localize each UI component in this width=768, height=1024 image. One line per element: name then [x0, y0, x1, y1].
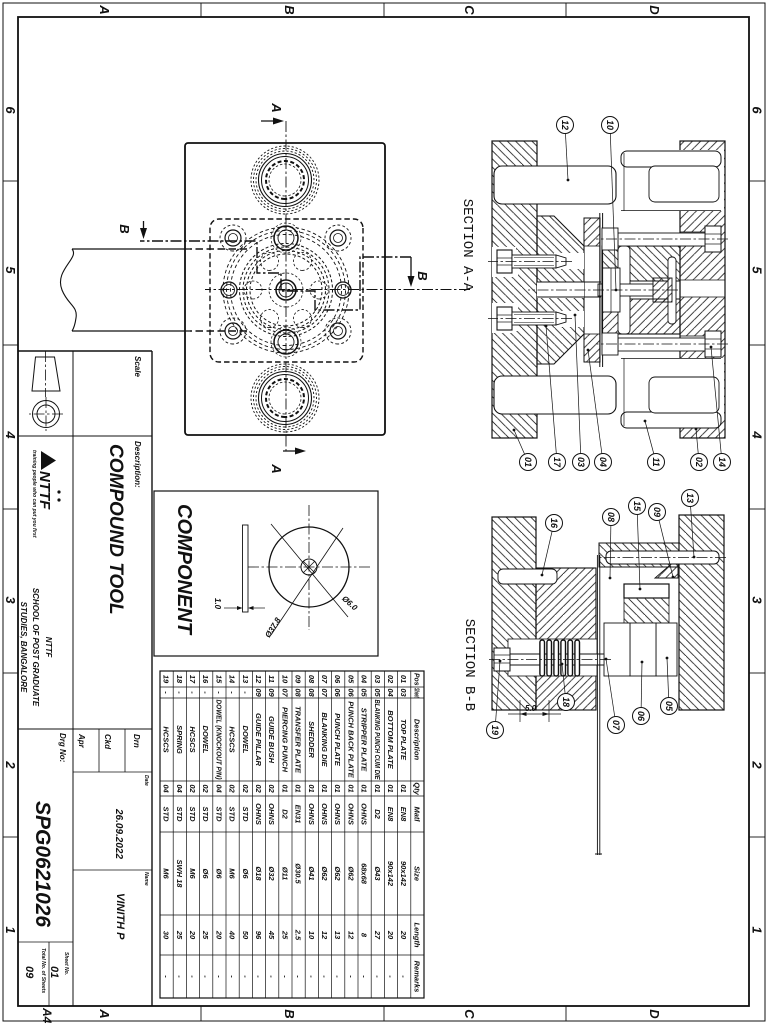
- svg-text:3: 3: [3, 596, 18, 604]
- svg-text:EN31: EN31: [294, 805, 303, 824]
- svg-text:Ø6: Ø6: [241, 868, 250, 879]
- shedder slot: [618, 246, 630, 334]
- svg-text:VINITH P: VINITH P: [114, 893, 126, 940]
- svg-text:D2: D2: [280, 809, 289, 819]
- svg-text:-: -: [254, 975, 263, 978]
- svg-text:8: 8: [360, 933, 369, 938]
- svg-text:-: -: [162, 975, 171, 978]
- svg-text:Ø62: Ø62: [346, 866, 355, 881]
- svg-text:40: 40: [228, 930, 237, 940]
- svg-text:Ø32: Ø32: [267, 866, 276, 881]
- svg-text:Apr: Apr: [77, 733, 86, 749]
- punch plate 06: [630, 623, 656, 676]
- stripper plate dashed outline: [210, 219, 363, 362]
- svg-text:04: 04: [360, 675, 369, 684]
- svg-text:4: 4: [750, 430, 765, 439]
- guide pillar left (12): [494, 166, 616, 204]
- svg-text:GUIDE PILLAR: GUIDE PILLAR: [254, 713, 263, 767]
- svg-text:HCSCS: HCSCS: [188, 726, 197, 752]
- svg-text:01: 01: [399, 675, 408, 683]
- svg-text:10: 10: [307, 931, 316, 940]
- svg-text:02: 02: [254, 784, 263, 793]
- svg-text:11: 11: [651, 457, 661, 466]
- balloon 07: [605, 658, 625, 734]
- svg-text:16: 16: [549, 518, 559, 529]
- guide bush left (11): [620, 150, 724, 211]
- svg-text:DOWEL (KNOCKOUT PIN): DOWEL (KNOCKOUT PIN): [214, 700, 223, 780]
- svg-text:16: 16: [201, 675, 210, 684]
- svg-text:07: 07: [611, 720, 621, 731]
- svg-text:SPG0621026: SPG0621026: [31, 801, 54, 927]
- svg-text:07: 07: [320, 675, 329, 684]
- svg-text:A: A: [97, 4, 112, 14]
- parts list table: [160, 671, 424, 998]
- svg-text:A: A: [269, 463, 284, 473]
- svg-text:-: -: [307, 975, 316, 978]
- bottom plate (B-B top slab): [679, 515, 724, 710]
- svg-text:-: -: [175, 975, 184, 978]
- svg-text:09: 09: [23, 966, 35, 979]
- svg-text:D: D: [647, 5, 662, 15]
- svg-text:50: 50: [241, 931, 250, 940]
- svg-text:-: -: [386, 975, 395, 978]
- svg-text:01: 01: [373, 784, 382, 792]
- small bush bottom (plan): [271, 327, 301, 357]
- balloon 01: [513, 429, 537, 471]
- svg-text:01: 01: [307, 784, 316, 792]
- svg-text:M6: M6: [228, 868, 237, 879]
- balloon 06: [633, 661, 650, 725]
- svg-text:B: B: [117, 224, 132, 233]
- svg-text:12: 12: [254, 675, 263, 684]
- svg-text:5.0: 5.0: [525, 704, 537, 713]
- guide bush left (plan): [251, 146, 319, 214]
- balloon 16: [541, 515, 563, 577]
- svg-text:Qty: Qty: [412, 782, 421, 795]
- bottom plate 02 (top slab): [680, 141, 725, 438]
- svg-text:OHNS: OHNS: [320, 803, 329, 825]
- svg-text:01: 01: [280, 784, 289, 792]
- svg-text:18: 18: [561, 697, 571, 707]
- svg-text:08: 08: [294, 688, 303, 697]
- svg-text:Ø6.0: Ø6.0: [340, 594, 359, 613]
- svg-text:01: 01: [360, 784, 369, 792]
- corner screw circles: [220, 225, 351, 344]
- svg-text:SECTION B-B: SECTION B-B: [461, 619, 477, 711]
- svg-text:10: 10: [280, 675, 289, 684]
- balloon 03: [573, 314, 590, 471]
- svg-text:-: -: [162, 691, 171, 694]
- svg-text:5: 5: [750, 266, 765, 274]
- svg-text:OHNS: OHNS: [307, 803, 316, 825]
- svg-text:B: B: [282, 1009, 297, 1018]
- svg-text:-: -: [320, 975, 329, 978]
- svg-text:A: A: [269, 102, 284, 112]
- svg-text:PIERCING PUNCH: PIERCING PUNCH: [280, 707, 289, 773]
- svg-text:1: 1: [750, 926, 765, 933]
- plan vertical centerline: [205, 289, 470, 291]
- svg-text:01: 01: [333, 784, 342, 792]
- component detail box: [154, 491, 378, 656]
- svg-text:01: 01: [523, 457, 533, 467]
- svg-text:Name: Name: [143, 872, 149, 886]
- svg-text:09: 09: [254, 688, 263, 697]
- svg-text:-: -: [373, 975, 382, 978]
- svg-text:01: 01: [294, 784, 303, 792]
- svg-text:15: 15: [632, 501, 642, 512]
- svg-text:19: 19: [162, 675, 171, 684]
- svg-text:Ckd: Ckd: [103, 734, 112, 750]
- svg-text:12: 12: [320, 931, 329, 940]
- svg-text:30: 30: [162, 931, 171, 940]
- svg-text:Ø30.5: Ø30.5: [294, 863, 303, 884]
- svg-text:Ø37.8: Ø37.8: [263, 616, 282, 640]
- svg-text:08: 08: [606, 512, 616, 522]
- svg-text:C: C: [462, 1009, 477, 1019]
- svg-text:SPRING: SPRING: [175, 725, 184, 754]
- svg-text:BLANKING DIE: BLANKING DIE: [320, 712, 329, 767]
- svg-text:OHNS: OHNS: [346, 803, 355, 825]
- balloon 18: [558, 663, 575, 711]
- svg-text:Ø43: Ø43: [373, 866, 382, 881]
- upper middle blocks: [599, 543, 679, 578]
- svg-text:STD: STD: [241, 807, 250, 823]
- svg-text:20: 20: [188, 930, 197, 940]
- strip edges: [60, 249, 247, 331]
- piercing punch 10: [598, 278, 672, 302]
- screw 17 right: [488, 303, 572, 333]
- svg-text:-: -: [214, 975, 223, 978]
- svg-text:STD: STD: [214, 807, 223, 823]
- svg-text:07: 07: [320, 688, 329, 697]
- svg-text:Ø62: Ø62: [333, 866, 342, 881]
- svg-text:-: -: [188, 691, 197, 694]
- svg-text:3: 3: [750, 596, 765, 604]
- svg-text:02: 02: [228, 784, 237, 793]
- svg-text:Date: Date: [143, 775, 149, 786]
- die block (B-B lower): [536, 568, 596, 710]
- svg-text:M6: M6: [188, 868, 197, 879]
- strip through B-B: [595, 555, 602, 855]
- component circle: [247, 505, 370, 630]
- balloon 12: [557, 117, 574, 182]
- guide bush right (11): [620, 358, 724, 428]
- stripper plate 04: [584, 218, 600, 362]
- balloon 11: [644, 420, 665, 471]
- svg-text:EN8: EN8: [386, 807, 395, 822]
- svg-text:68x68: 68x68: [360, 863, 369, 885]
- svg-text:03: 03: [576, 457, 586, 467]
- svg-text:Ø18: Ø18: [254, 866, 263, 881]
- punch back plate 05: [656, 623, 677, 676]
- svg-text:STD: STD: [228, 807, 237, 823]
- SECTION A-A: [488, 141, 728, 438]
- balloon 19: [487, 660, 504, 739]
- strip in section A-A: [602, 213, 604, 367]
- svg-text:Scale: Scale: [133, 356, 142, 377]
- balloon 08: [603, 509, 620, 580]
- svg-text:06: 06: [636, 711, 646, 722]
- drg no SPG0621026: [31, 733, 67, 927]
- svg-text:15: 15: [214, 675, 223, 684]
- svg-text:26.09.2022: 26.09.2022: [113, 808, 124, 859]
- svg-text:20: 20: [399, 930, 408, 940]
- svg-text:01: 01: [386, 784, 395, 792]
- svg-text:11: 11: [267, 675, 276, 683]
- sheet no cell: [23, 948, 69, 1024]
- svg-text:-: -: [360, 975, 369, 978]
- svg-text:BLANKING PUNCH CUM DIE: BLANKING PUNCH CUM DIE: [373, 700, 382, 781]
- shedder 08 / transfer plate 09: [602, 268, 620, 312]
- svg-text:SECTION A-A: SECTION A-A: [459, 199, 475, 292]
- svg-text:25: 25: [175, 930, 184, 940]
- svg-text:19: 19: [490, 725, 500, 735]
- svg-text:18: 18: [175, 675, 184, 684]
- svg-text:D2: D2: [373, 809, 382, 819]
- svg-text:Ø41: Ø41: [307, 866, 316, 880]
- svg-text:6: 6: [3, 106, 18, 114]
- projection symbol: [29, 351, 63, 431]
- svg-text:STRIPPER PLATE: STRIPPER PLATE: [360, 708, 369, 773]
- svg-text:DOWEL: DOWEL: [201, 726, 210, 754]
- svg-text:-: -: [267, 975, 276, 978]
- screw 14 left: [596, 226, 728, 252]
- punch holder block: [537, 216, 601, 364]
- svg-text:Ø6: Ø6: [201, 868, 210, 879]
- balloon 15: [629, 498, 646, 591]
- svg-text:13: 13: [685, 493, 695, 503]
- svg-text:14: 14: [717, 457, 727, 467]
- svg-text:08: 08: [307, 688, 316, 697]
- spring 18 with screw 19: [488, 639, 611, 676]
- dowel 13: [600, 551, 726, 564]
- svg-text:02: 02: [201, 784, 210, 793]
- balloon 10: [602, 117, 619, 292]
- dia 6.0 leader: [271, 524, 360, 617]
- svg-text:06: 06: [333, 675, 342, 684]
- svg-text:06: 06: [346, 688, 355, 697]
- section B-B stepped cutting line: [117, 221, 430, 310]
- svg-text:OHNS: OHNS: [333, 803, 342, 825]
- svg-text:05: 05: [373, 688, 382, 697]
- svg-text:02: 02: [241, 784, 250, 793]
- svg-text:-: -: [399, 975, 408, 978]
- svg-text:NTTF: NTTF: [44, 637, 53, 659]
- dowel 16: [498, 569, 557, 584]
- svg-text:03: 03: [373, 675, 382, 684]
- svg-text:-: -: [175, 691, 184, 694]
- balloon 05: [661, 657, 678, 715]
- balloon 13: [682, 490, 699, 559]
- SECTION B-B: [488, 515, 726, 855]
- svg-text:Description:: Description:: [133, 441, 142, 488]
- svg-text:STUDIES, BANGALORE: STUDIES, BANGALORE: [19, 602, 28, 693]
- plan horizontal centerline / section A-A cut: [285, 121, 287, 451]
- svg-text:PUNCH PLATE: PUNCH PLATE: [333, 713, 342, 767]
- svg-text:-: -: [228, 691, 237, 694]
- top plate 01 (bottom slab): [492, 141, 537, 438]
- svg-text:27: 27: [373, 930, 382, 940]
- svg-text:OHNS: OHNS: [360, 803, 369, 825]
- svg-text:STD: STD: [201, 807, 210, 823]
- svg-text:12: 12: [346, 931, 355, 940]
- svg-text:M6: M6: [162, 868, 171, 879]
- svg-text:STD: STD: [188, 807, 197, 823]
- svg-text:SHEDDER: SHEDDER: [307, 721, 316, 758]
- blanking die dashed circles: [223, 227, 349, 353]
- svg-text:01: 01: [48, 966, 60, 978]
- svg-text:COMPOUND TOOL: COMPOUND TOOL: [105, 444, 126, 615]
- svg-text:2: 2: [3, 760, 18, 769]
- svg-text:02: 02: [188, 784, 197, 793]
- svg-text:-: -: [333, 975, 342, 978]
- svg-text:HCSCS: HCSCS: [162, 726, 171, 752]
- svg-text:13: 13: [333, 931, 342, 940]
- svg-text:6: 6: [750, 106, 765, 114]
- svg-text:-: -: [241, 691, 250, 694]
- svg-text:04: 04: [598, 457, 608, 467]
- svg-text:09: 09: [267, 688, 276, 697]
- svg-text:PUNCH BACK PLATE: PUNCH BACK PLATE: [346, 701, 355, 779]
- svg-text:DOWEL: DOWEL: [241, 726, 250, 754]
- svg-text:-: -: [241, 975, 250, 978]
- svg-text:STD: STD: [162, 807, 171, 823]
- section A-A centreline: [528, 289, 678, 291]
- svg-text:COMPONENT: COMPONENT: [173, 504, 195, 636]
- transfer plate 09: [668, 257, 676, 324]
- dimension 5.0: [508, 700, 561, 722]
- svg-text:01: 01: [399, 784, 408, 792]
- svg-text:training people who can put y: training people who can put you first: [31, 450, 37, 538]
- svg-text:02: 02: [694, 457, 704, 467]
- svg-text:90x142: 90x142: [386, 861, 395, 887]
- svg-text:SWH 18: SWH 18: [175, 860, 184, 889]
- svg-text:01: 01: [346, 784, 355, 792]
- svg-text:02: 02: [267, 784, 276, 793]
- svg-text:Remarks: Remarks: [412, 961, 421, 993]
- NTTF logo: [31, 450, 61, 538]
- svg-text:Ø11: Ø11: [280, 867, 289, 881]
- svg-text:Length: Length: [412, 923, 421, 948]
- svg-text:TOP PLATE: TOP PLATE: [399, 719, 408, 761]
- svg-text:NTTF: NTTF: [36, 471, 53, 510]
- svg-text:-: -: [201, 691, 210, 694]
- svg-text:Drn: Drn: [132, 734, 141, 748]
- title block: [18, 351, 152, 1006]
- svg-text:-: -: [228, 975, 237, 978]
- svg-text:BOTTOM PLATE: BOTTOM PLATE: [386, 710, 395, 769]
- svg-text:Total No. of Sheets: Total No. of Sheets: [40, 948, 46, 993]
- svg-text:04: 04: [214, 784, 223, 793]
- svg-text:Drg No:: Drg No:: [58, 733, 67, 763]
- svg-text:04: 04: [386, 688, 395, 697]
- guide pillar right (12): [494, 376, 616, 414]
- balloon 09: [649, 504, 675, 579]
- svg-text:Sheet No.: Sheet No.: [63, 952, 69, 975]
- centre punch circles: [276, 280, 296, 300]
- guide bush right (plan): [251, 364, 319, 432]
- svg-text:25: 25: [280, 930, 289, 940]
- svg-text:D: D: [647, 1009, 662, 1019]
- small bush top (plan): [271, 223, 301, 253]
- svg-text:10: 10: [605, 120, 615, 130]
- svg-text:-: -: [188, 975, 197, 978]
- svg-text:HCSCS: HCSCS: [228, 726, 237, 752]
- svg-text:Matl: Matl: [412, 807, 421, 823]
- svg-text:17: 17: [552, 457, 562, 468]
- svg-text:5: 5: [3, 266, 18, 274]
- svg-text:06: 06: [333, 688, 342, 697]
- svg-text:4: 4: [3, 430, 18, 439]
- svg-text:-: -: [346, 975, 355, 978]
- svg-text:2: 2: [750, 760, 765, 769]
- svg-text:05: 05: [664, 701, 674, 712]
- svg-text:OHNS: OHNS: [267, 803, 276, 825]
- balloon 04: [587, 349, 612, 471]
- section A-A arrows: [261, 102, 306, 473]
- svg-text:1: 1: [3, 926, 18, 933]
- svg-text:96: 96: [254, 931, 263, 940]
- balloon 14: [710, 346, 731, 471]
- svg-text:Description: Description: [412, 719, 421, 761]
- svg-text:STD: STD: [175, 807, 184, 823]
- svg-text:Size: Size: [412, 866, 421, 881]
- svg-text:12: 12: [560, 120, 570, 130]
- description: COMPOUND TOOL: [105, 441, 142, 615]
- svg-text:01: 01: [320, 784, 329, 792]
- svg-text:05: 05: [346, 675, 355, 684]
- svg-text:GUIDE BUSH: GUIDE BUSH: [267, 716, 276, 764]
- screw 14 right: [596, 331, 728, 357]
- svg-text:20: 20: [386, 930, 395, 940]
- svg-text:45: 45: [267, 930, 276, 940]
- svg-text:09: 09: [294, 675, 303, 684]
- svg-text:1.0: 1.0: [213, 598, 222, 610]
- svg-text:04: 04: [175, 784, 184, 793]
- svg-text:14: 14: [228, 675, 237, 684]
- svg-text:02: 02: [386, 675, 395, 684]
- svg-text:EN8: EN8: [399, 807, 408, 822]
- svg-text:B: B: [415, 271, 430, 280]
- dowel circles on vertical axis: [221, 282, 351, 298]
- svg-text:-: -: [201, 975, 210, 978]
- svg-text:17: 17: [188, 675, 197, 684]
- svg-text:05: 05: [360, 688, 369, 697]
- die plate circle cluster: [240, 244, 333, 337]
- svg-text:03: 03: [399, 688, 408, 697]
- drn/ckd/apr rows: [77, 733, 149, 940]
- svg-text:90x142: 90x142: [399, 861, 408, 887]
- svg-text:07: 07: [280, 688, 289, 697]
- svg-text:Ø6: Ø6: [214, 868, 223, 879]
- svg-text:-: -: [294, 975, 303, 978]
- svg-text:A4: A4: [40, 1007, 54, 1024]
- hexagon small dashed circles: [244, 252, 328, 327]
- balloon 17: [545, 325, 566, 471]
- dia 37.8 leader: [263, 528, 343, 639]
- svg-text:TRANSFER PLATE: TRANSFER PLATE: [294, 706, 303, 774]
- top plate (B-B bottom slab): [492, 517, 536, 710]
- svg-text:SCHOOL OF POST GRADUATE: SCHOOL OF POST GRADUATE: [31, 588, 40, 707]
- svg-text:OHNS: OHNS: [254, 803, 263, 825]
- svg-text:09: 09: [652, 507, 662, 517]
- svg-text:Pos: Pos: [412, 673, 421, 686]
- svg-text:B: B: [282, 5, 297, 14]
- svg-text:-: -: [280, 975, 289, 978]
- component side view strip: [213, 525, 265, 612]
- svg-text:08: 08: [307, 675, 316, 684]
- svg-text:04: 04: [162, 784, 171, 793]
